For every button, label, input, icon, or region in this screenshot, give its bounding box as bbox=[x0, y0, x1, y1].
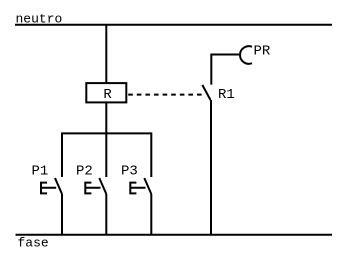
socket PR symbol bbox=[240, 46, 252, 64]
svg-text:P2: P2 bbox=[76, 163, 93, 179]
wire from neutro to coil R bbox=[105, 25, 107, 83]
pushbutton P1 actuator bbox=[41, 183, 56, 194]
dashed mechanical link coil R to contact R1 bbox=[128, 94, 203, 96]
svg-text:fase: fase bbox=[18, 236, 49, 251]
svg-text:R1: R1 bbox=[218, 87, 235, 103]
wire R1 to fase bbox=[210, 100, 212, 235]
pushbutton P1 contact blade bbox=[55, 178, 62, 194]
wire from coil R to pushbutton bus bbox=[105, 103, 107, 134]
pushbutton P2 actuator bbox=[85, 183, 100, 194]
wire fase bus bbox=[16, 234, 333, 236]
svg-text:P3: P3 bbox=[121, 163, 138, 179]
relay coil R bbox=[86, 83, 126, 102]
wire bus to P1 bbox=[61, 132, 63, 177]
relay contact R1 blade bbox=[202, 85, 210, 100]
wire bus to P2 bbox=[105, 133, 107, 177]
wire R1 branch from socket corner down to contact bbox=[211, 55, 240, 85]
wire P2 to fase bbox=[105, 194, 107, 235]
wire pushbutton bus bbox=[62, 132, 151, 134]
svg-text:R: R bbox=[103, 87, 112, 103]
svg-text:P1: P1 bbox=[32, 163, 49, 179]
wire P3 to fase bbox=[150, 194, 152, 235]
wire bus to P3 bbox=[150, 132, 152, 177]
wire P1 to fase bbox=[61, 194, 63, 235]
pushbutton P3 actuator bbox=[130, 183, 145, 194]
pushbutton P2 contact blade bbox=[99, 178, 106, 194]
pushbutton P3 contact blade bbox=[144, 178, 151, 194]
svg-text:PR: PR bbox=[254, 43, 271, 59]
wire neutro bus bbox=[15, 24, 332, 26]
